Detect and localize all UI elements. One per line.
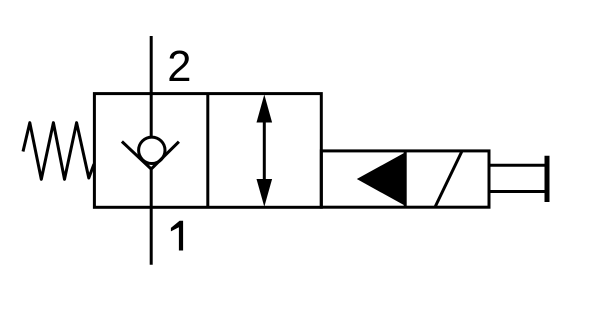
connector stub bottom [489, 190, 547, 193]
solenoid diagonal [435, 152, 462, 207]
connector stub top [489, 164, 547, 167]
valve body divider [206, 94, 209, 208]
wire port 2 [150, 36, 153, 137]
arrowhead down [257, 179, 273, 207]
connector end bar [545, 156, 550, 202]
solenoid box [321, 151, 489, 207]
spring [23, 123, 94, 180]
solenoid divider [404, 151, 407, 207]
check valve seat [122, 142, 179, 170]
wire port 1 [150, 168, 153, 265]
check valve ball (circle) [139, 137, 165, 163]
svg-text:2: 2 [167, 43, 191, 91]
label 1 [171, 221, 183, 251]
arrowhead up [257, 95, 273, 123]
valve body envelope (two squares) [94, 94, 321, 208]
arrow shaft [263, 118, 266, 183]
solenoid triangle [357, 152, 405, 205]
